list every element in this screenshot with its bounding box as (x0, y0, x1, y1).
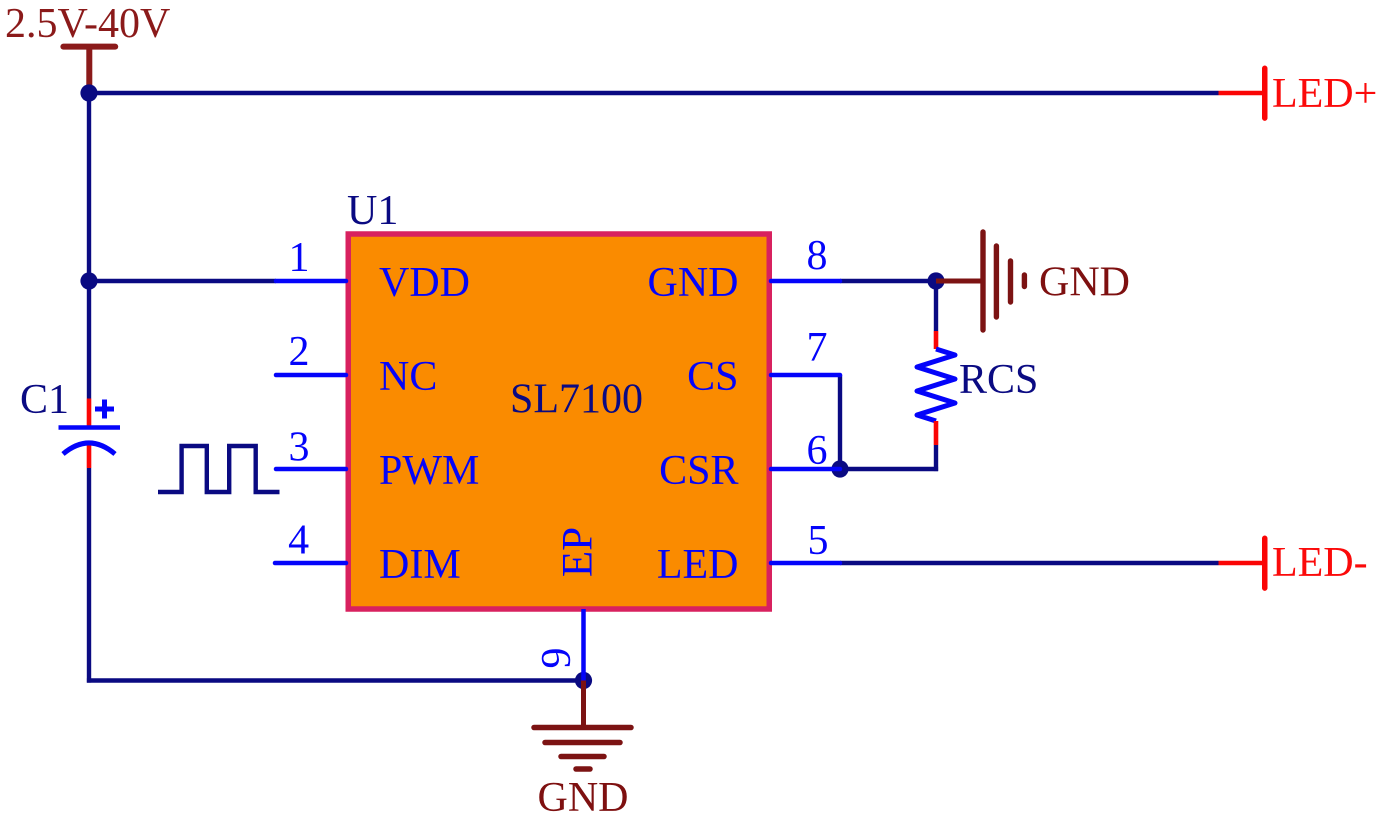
svg-text:U1: U1 (347, 188, 398, 234)
svg-text:EP: EP (555, 527, 602, 577)
svg-text:9: 9 (534, 648, 580, 669)
pwm input waveform (158, 446, 280, 492)
svg-text:3: 3 (289, 425, 310, 471)
svg-text:GND: GND (538, 775, 629, 821)
svg-text:8: 8 (807, 233, 828, 279)
wire top rail navy (89, 91, 1219, 95)
ground GND bottom (534, 681, 631, 770)
pin 6 CSR stub (771, 467, 840, 472)
svg-text:GND: GND (648, 260, 739, 306)
node junction gnd-rcs (927, 272, 944, 289)
svg-text:C1: C1 (20, 377, 69, 423)
svg-text:GND: GND (1039, 260, 1130, 306)
svg-text:NC: NC (379, 354, 437, 400)
svg-text:7: 7 (807, 325, 828, 371)
svg-text:6: 6 (807, 428, 828, 474)
wire pin5 to LED- (840, 561, 1219, 565)
ground GND right (rotated earth) (936, 232, 1024, 330)
wire left vertical upper (87, 93, 91, 399)
svg-text:2.5V-40V: 2.5V-40V (5, 1, 170, 47)
svg-text:5: 5 (808, 518, 829, 564)
svg-text:RCS: RCS (959, 357, 1038, 403)
pin 8 GND stub (771, 279, 840, 284)
pin 4 DIM stub (275, 561, 346, 566)
pin 7 CS stub (771, 373, 840, 378)
svg-text:2: 2 (289, 329, 310, 375)
resistor RCS (917, 331, 955, 445)
terminal LED+ (1219, 68, 1265, 118)
svg-text:LED-: LED- (1272, 540, 1368, 586)
wire rcs bottom navy (934, 445, 938, 471)
pin 9 EP stub (581, 609, 586, 681)
svg-text:CSR: CSR (659, 448, 738, 494)
power rail bar 2.5V-40V (63, 47, 115, 93)
svg-text:PWM: PWM (379, 448, 479, 494)
svg-text:CS: CS (687, 354, 738, 400)
wire pin8 to gnd node (840, 279, 936, 283)
wire rcs top navy (934, 281, 938, 331)
svg-text:LED+: LED+ (1272, 71, 1377, 117)
wire pin7 vertical (838, 375, 842, 469)
pin 3 PWM stub (276, 467, 346, 472)
capacitor C1 (59, 399, 121, 469)
svg-text:DIM: DIM (379, 542, 461, 588)
node junction EP-bottom (575, 672, 592, 689)
wire left vertical lower (87, 468, 91, 683)
svg-text:4: 4 (288, 518, 309, 564)
node junction pin6 (831, 460, 848, 477)
svg-text:VDD: VDD (379, 260, 470, 306)
pin 5 LED stub (771, 561, 840, 566)
wire pin6 to rcs bottom (840, 467, 938, 471)
svg-text:1: 1 (289, 235, 310, 281)
svg-text:LED: LED (657, 542, 739, 588)
pin 1 VDD stub (276, 279, 346, 284)
node junction pin1 (80, 272, 97, 289)
svg-text:SL7100: SL7100 (510, 377, 643, 423)
node junction top-left (80, 84, 97, 101)
chip U1 body SL7100 (348, 234, 769, 609)
wire pin1 to left rail (89, 279, 276, 283)
wire bottom horizontal (87, 678, 584, 682)
pin 2 NC stub (276, 373, 346, 378)
terminal LED- (1219, 538, 1265, 588)
